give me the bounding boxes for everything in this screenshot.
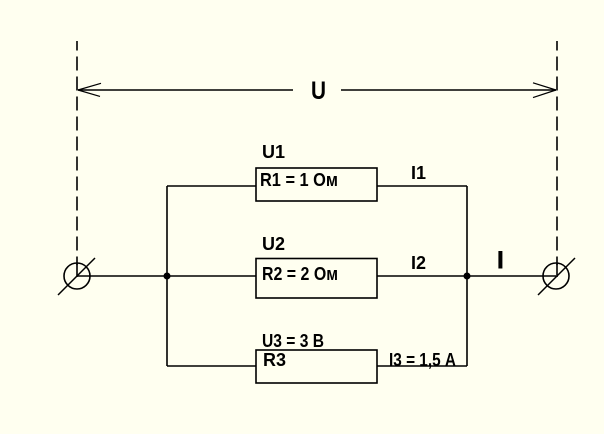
svg-text:R1 = 1 Ом: R1 = 1 Ом	[260, 170, 338, 190]
svg-text:I2: I2	[411, 253, 426, 273]
svg-text:R3: R3	[263, 350, 286, 370]
svg-text:U: U	[311, 77, 326, 105]
svg-text:I1: I1	[411, 163, 426, 183]
svg-text:U3 = 3 В: U3 = 3 В	[262, 331, 324, 351]
svg-text:I3 = 1,5 А: I3 = 1,5 А	[389, 350, 456, 370]
svg-text:R2 = 2 Ом: R2 = 2 Ом	[262, 264, 338, 284]
svg-text:U2: U2	[262, 234, 285, 254]
svg-text:U1: U1	[262, 142, 285, 162]
